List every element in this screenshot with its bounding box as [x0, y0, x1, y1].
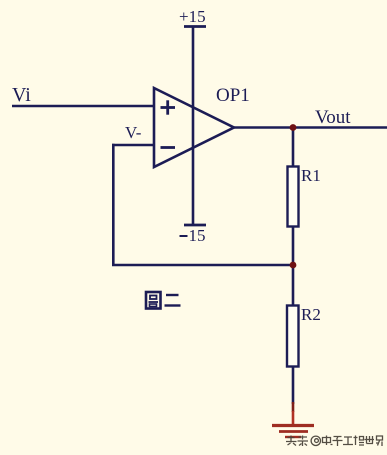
svg-text:R2: R2	[301, 305, 321, 324]
svg-text:Vi: Vi	[12, 84, 31, 106]
svg-text:R1: R1	[301, 166, 321, 185]
svg-text:OP1: OP1	[216, 85, 250, 106]
svg-text:V-: V-	[125, 123, 142, 142]
svg-text:15: 15	[189, 226, 206, 245]
svg-text:+15: +15	[179, 7, 206, 26]
svg-text:Vout: Vout	[315, 107, 351, 128]
